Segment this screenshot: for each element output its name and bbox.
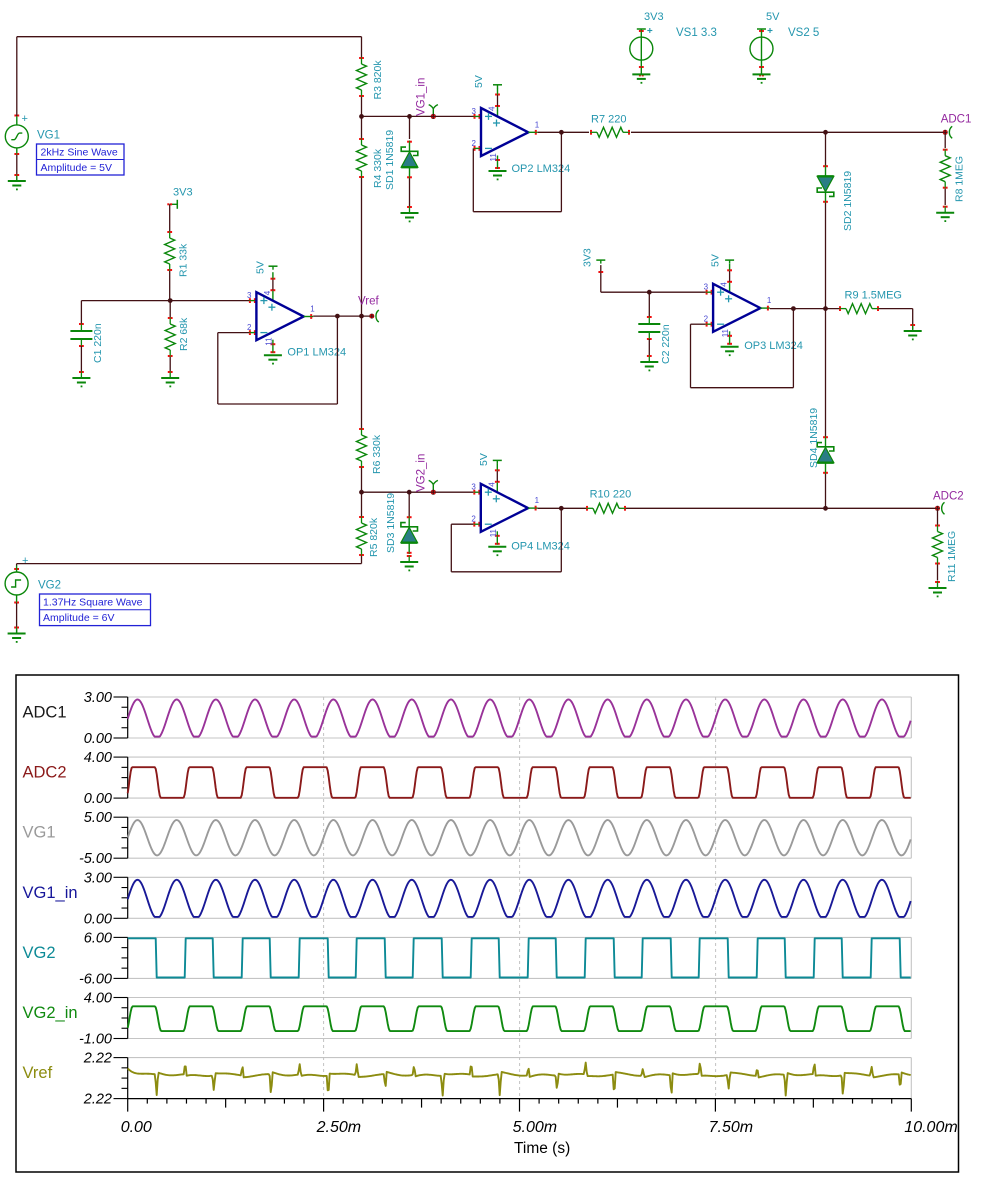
voltage source VS1 xyxy=(630,37,653,60)
wire OP3 feedback xyxy=(690,324,692,388)
svg-text:R7 220: R7 220 xyxy=(591,114,626,126)
capacitor C2 220n xyxy=(648,292,650,317)
wire VG2 to R5 xyxy=(16,566,18,572)
svg-text:4: 4 xyxy=(488,106,497,111)
wire OP1 feedback xyxy=(217,333,219,404)
svg-text:R8 1MEG: R8 1MEG xyxy=(954,156,966,202)
resistor R5 820k xyxy=(361,492,363,516)
svg-text:Time (s): Time (s) xyxy=(514,1140,570,1157)
trace VG1_in xyxy=(128,880,911,917)
svg-text:7.50m: 7.50m xyxy=(709,1119,753,1136)
wire OP4 out to R10 xyxy=(538,507,586,509)
ground under C1 xyxy=(80,371,82,378)
ground under R9 xyxy=(912,324,914,331)
wire 3V3 to OP3 xyxy=(600,265,602,292)
svg-text:4: 4 xyxy=(720,282,729,287)
svg-text:R9 1.5MEG: R9 1.5MEG xyxy=(845,290,902,302)
svg-text:4: 4 xyxy=(487,482,496,487)
trace VG2 xyxy=(128,938,911,977)
trace ADC2 xyxy=(128,767,911,798)
svg-text:2.22: 2.22 xyxy=(83,1092,112,1108)
capacitor C1 220n xyxy=(80,301,82,324)
annotation box VG1 xyxy=(37,144,125,175)
5V power tack OP4 xyxy=(493,459,502,461)
op-amp OP4 xyxy=(473,491,481,493)
svg-text:R5 820k: R5 820k xyxy=(368,517,380,557)
voltage source VS2 xyxy=(750,37,773,60)
5V power tack OP3 xyxy=(725,259,734,261)
svg-text:0.00: 0.00 xyxy=(84,911,112,927)
svg-text:4.00: 4.00 xyxy=(84,991,112,1007)
ground under VS2 xyxy=(761,60,763,74)
svg-text:VG2: VG2 xyxy=(23,944,56,962)
svg-text:4: 4 xyxy=(263,290,272,295)
wire OP4 feedback xyxy=(450,524,452,572)
3V3 power tack R1 xyxy=(176,200,178,209)
svg-text:3.00: 3.00 xyxy=(84,870,112,886)
resistor R3 820k xyxy=(361,57,363,64)
voltage generator VG2 xyxy=(5,572,28,595)
wire C1 to OP1 xyxy=(81,300,249,302)
svg-text:-6.00: -6.00 xyxy=(79,971,112,987)
svg-text:11: 11 xyxy=(489,528,498,537)
svg-text:R10 220: R10 220 xyxy=(590,489,632,501)
svg-text:3: 3 xyxy=(247,291,252,300)
svg-text:C1 220n: C1 220n xyxy=(92,323,104,363)
net label Vref xyxy=(376,310,379,322)
svg-text:VG2: VG2 xyxy=(38,580,61,592)
svg-text:ADC1: ADC1 xyxy=(941,114,972,126)
plot border frame xyxy=(16,675,959,1172)
svg-text:ADC1: ADC1 xyxy=(23,704,67,722)
svg-text:R1 33k: R1 33k xyxy=(178,243,190,277)
svg-text:Amplitude = 6V: Amplitude = 6V xyxy=(43,612,115,624)
svg-text:-5.00: -5.00 xyxy=(79,851,112,867)
net label ADC2 xyxy=(942,502,945,514)
diode SD2 1N5819 xyxy=(825,132,827,166)
node VG1_in tack xyxy=(432,109,434,117)
svg-text:0.00: 0.00 xyxy=(84,791,112,807)
svg-text:2: 2 xyxy=(472,139,477,148)
svg-text:2kHz Sine Wave: 2kHz Sine Wave xyxy=(41,147,118,159)
voltage generator VG1 xyxy=(5,125,28,148)
svg-text:1.37Hz Square Wave: 1.37Hz Square Wave xyxy=(43,597,143,609)
ground under VS1 xyxy=(640,60,642,74)
op-amp OP3 xyxy=(706,291,714,293)
svg-text:R6 330k: R6 330k xyxy=(371,434,383,474)
svg-text:6.00: 6.00 xyxy=(84,930,112,946)
wire R10 to ADC2 xyxy=(626,507,938,509)
resistor R1 33k xyxy=(169,204,171,231)
svg-text:Vref: Vref xyxy=(358,296,379,308)
svg-text:VG1: VG1 xyxy=(23,824,56,842)
svg-text:SD1 1N5819: SD1 1N5819 xyxy=(384,130,396,190)
ground under R2 xyxy=(169,371,171,378)
svg-text:5V: 5V xyxy=(766,11,780,23)
svg-text:VS1 3.3: VS1 3.3 xyxy=(676,27,717,39)
svg-text:VG2_in: VG2_in xyxy=(23,1004,78,1022)
svg-text:1: 1 xyxy=(310,305,315,314)
ground under SD3 xyxy=(408,555,410,562)
svg-text:11: 11 xyxy=(264,337,273,346)
diode SD3 1N5819 xyxy=(407,490,412,495)
svg-text:3: 3 xyxy=(471,483,476,492)
node C2 xyxy=(647,290,652,295)
5V power tack OP2 xyxy=(493,84,502,86)
wire OP1 out to Vref xyxy=(313,315,371,317)
5V power tack OP1 xyxy=(269,265,278,267)
trace VG1 xyxy=(128,820,911,855)
wire R4 down to Vref node xyxy=(361,178,363,316)
ground under C2 xyxy=(648,355,650,362)
svg-text:ADC2: ADC2 xyxy=(23,764,67,782)
wire R6 to node xyxy=(361,468,363,492)
svg-text:OP3 LM324: OP3 LM324 xyxy=(744,340,803,352)
svg-text:11: 11 xyxy=(721,328,730,337)
svg-text:VG1: VG1 xyxy=(37,130,60,142)
svg-text:+: + xyxy=(22,555,28,567)
svg-text:SD2 1N5819: SD2 1N5819 xyxy=(842,171,854,231)
svg-text:5.00m: 5.00m xyxy=(513,1119,557,1136)
svg-text:3.00: 3.00 xyxy=(84,690,112,706)
svg-text:Amplitude = 5V: Amplitude = 5V xyxy=(41,162,113,174)
strip grid frames xyxy=(128,696,912,698)
ground under VG1 xyxy=(16,148,18,155)
svg-text:R11 1MEG: R11 1MEG xyxy=(946,531,958,582)
node OP4 output xyxy=(559,506,564,511)
svg-text:0.00: 0.00 xyxy=(84,731,112,747)
svg-text:VG1_in: VG1_in xyxy=(23,884,78,902)
svg-text:3V3: 3V3 xyxy=(582,248,594,267)
wire node to OP4 xyxy=(362,491,474,493)
svg-text:VG1_in: VG1_in xyxy=(416,78,428,116)
svg-text:R2 68k: R2 68k xyxy=(178,317,190,351)
dashed vertical gridlines xyxy=(323,697,325,1099)
wire R3 to node xyxy=(361,97,363,116)
ground under R11 xyxy=(937,581,939,588)
time axis xyxy=(128,1098,912,1100)
wire OP3 out xyxy=(770,308,840,310)
svg-text:1: 1 xyxy=(767,296,772,305)
wire OP2 output to R7 xyxy=(538,131,589,133)
svg-text:0.00: 0.00 xyxy=(121,1119,152,1136)
svg-text:2: 2 xyxy=(247,323,252,332)
svg-text:3: 3 xyxy=(704,283,709,292)
svg-text:2: 2 xyxy=(471,515,476,524)
wire R9 to ground xyxy=(879,308,913,310)
wire R7 to ADC1 xyxy=(631,131,945,133)
svg-text:SD3 1N5819: SD3 1N5819 xyxy=(385,493,397,553)
svg-text:3: 3 xyxy=(472,107,477,116)
op-amp OP2 xyxy=(474,115,482,117)
svg-text:VG2_in: VG2_in xyxy=(415,454,427,492)
node VG1_in junction xyxy=(359,114,364,119)
svg-text:1: 1 xyxy=(535,496,540,505)
node OP2 output xyxy=(559,130,564,135)
wire node to OP2 xyxy=(362,115,474,117)
trace ADC1 xyxy=(128,699,911,736)
svg-text:1: 1 xyxy=(535,120,540,129)
ground under R8 xyxy=(944,206,946,213)
node VG2_in tack xyxy=(432,485,434,493)
svg-text:2: 2 xyxy=(704,315,709,324)
node SD2 junction xyxy=(823,130,828,135)
svg-text:2.22: 2.22 xyxy=(83,1051,112,1067)
node R1 R2 xyxy=(168,298,173,303)
resistor R8 1MEG xyxy=(944,132,946,148)
3V3 power tack OP3 xyxy=(596,259,605,261)
strip axes xyxy=(127,697,129,738)
resistor R10 220 xyxy=(586,507,593,509)
svg-text:2.50m: 2.50m xyxy=(316,1119,361,1136)
svg-text:SD4 1N5819: SD4 1N5819 xyxy=(808,408,820,468)
annotation box VG2 xyxy=(40,594,151,626)
ground under VG2 xyxy=(16,595,18,603)
svg-text:5V: 5V xyxy=(710,254,722,267)
svg-text:4.00: 4.00 xyxy=(84,750,112,766)
resistor R6 330k xyxy=(361,316,363,428)
svg-text:10.00m: 10.00m xyxy=(904,1119,957,1136)
svg-text:5.00: 5.00 xyxy=(84,810,112,826)
svg-text:R3 820k: R3 820k xyxy=(372,60,384,100)
svg-text:5V: 5V xyxy=(254,261,266,274)
svg-text:-1.00: -1.00 xyxy=(79,1032,112,1048)
net label ADC1 xyxy=(949,126,952,138)
svg-text:11: 11 xyxy=(489,153,498,162)
svg-text:R4 330k: R4 330k xyxy=(372,148,384,188)
resistor R4 330k xyxy=(361,116,363,138)
diode SD1 1N5819 xyxy=(407,114,412,119)
node SD4 junction xyxy=(823,506,828,511)
wire VG1 to R3 xyxy=(16,37,18,116)
svg-text:ADC2: ADC2 xyxy=(933,491,964,503)
resistor R11 1MEG xyxy=(937,508,939,524)
ground under SD1 xyxy=(409,206,411,213)
svg-text:5V: 5V xyxy=(478,453,490,466)
svg-text:5V: 5V xyxy=(473,75,485,88)
node VG2_in junction xyxy=(359,490,364,495)
trace VG2_in xyxy=(128,1006,911,1031)
svg-text:3V3: 3V3 xyxy=(173,186,193,198)
svg-text:C2 220n: C2 220n xyxy=(660,324,672,364)
svg-text:3V3: 3V3 xyxy=(644,11,664,23)
trace Vref xyxy=(128,1063,911,1096)
svg-text:+: + xyxy=(22,113,28,125)
svg-text:VS2 5: VS2 5 xyxy=(788,27,819,39)
wire OP2 feedback xyxy=(472,148,474,211)
op-amp OP1 xyxy=(249,300,257,302)
resistor R2 68k xyxy=(169,301,171,317)
resistor R7 220 xyxy=(590,131,597,133)
svg-text:Vref: Vref xyxy=(23,1064,53,1082)
resistor R9 1.5MEG xyxy=(839,308,846,310)
diode SD4 1N5819 xyxy=(825,309,827,436)
